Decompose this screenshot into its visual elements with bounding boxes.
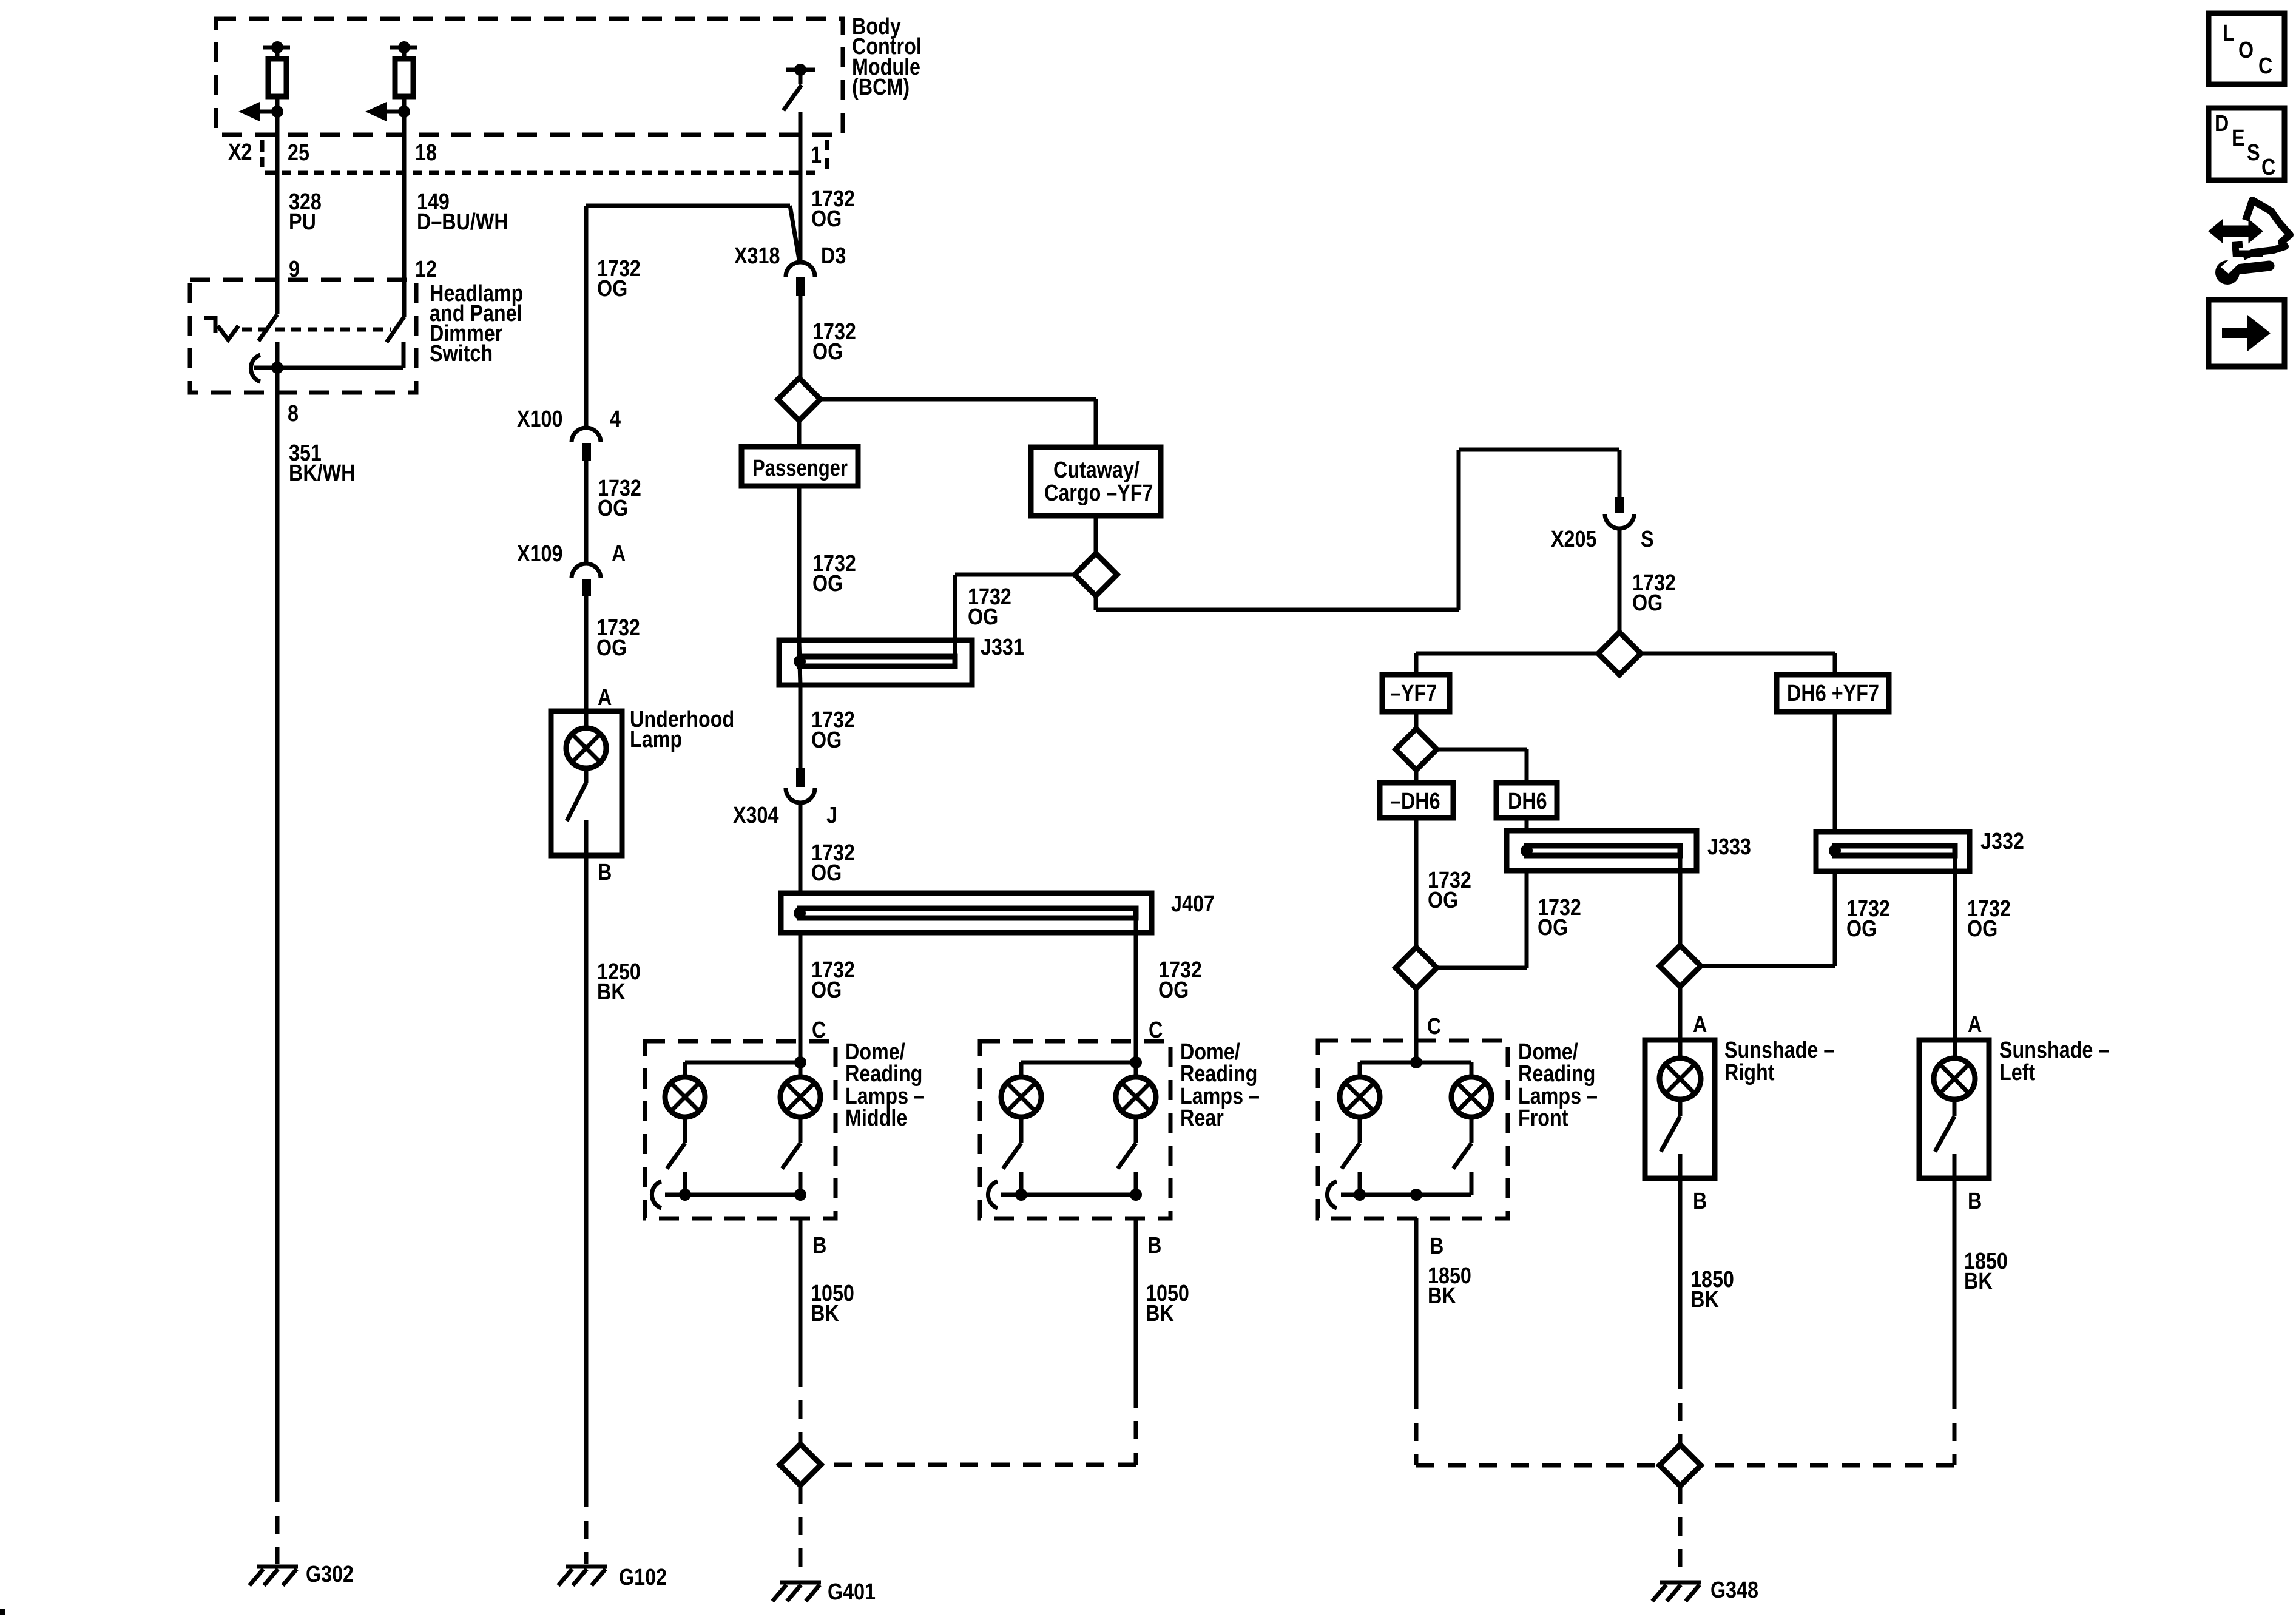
label 1732 OG (passenger-J331) <box>812 551 856 596</box>
label 1732 OG (dome rear feed) <box>1158 957 1202 1003</box>
svg-text:4: 4 <box>610 407 621 432</box>
dashed lead dome rear to diamond <box>821 1389 1136 1465</box>
svg-text:J331: J331 <box>981 635 1024 660</box>
label 351 BK/WH <box>289 441 356 486</box>
Sunshade Right box <box>1645 1040 1715 1178</box>
wire diamond to sunshade right pin A <box>1678 987 1683 1041</box>
wire J331 through main <box>799 642 800 685</box>
dome middle top bus <box>685 1056 806 1078</box>
BCM label <box>852 14 922 100</box>
svg-text:J: J <box>826 803 837 828</box>
label 1732 OG (X100 branch) <box>597 256 641 302</box>
dome rear case curl <box>988 1181 998 1208</box>
ground G302 <box>249 1567 298 1585</box>
dashed lead to G302 <box>275 1484 280 1564</box>
icon arrow box <box>2209 300 2284 366</box>
label 1850 BK (sunshade right) <box>1690 1267 1734 1312</box>
svg-text:BK/WH: BK/WH <box>289 461 356 486</box>
wire Cutaway box to splice diamond <box>1094 516 1098 554</box>
svg-text:G348: G348 <box>1710 1578 1758 1603</box>
svg-text:E: E <box>2232 126 2245 151</box>
svg-text:DH6 +YF7: DH6 +YF7 <box>1787 681 1879 706</box>
dome rear lamp 1 <box>1001 1077 1041 1117</box>
splice diamond (G348) <box>1660 1445 1701 1486</box>
svg-text:A: A <box>612 541 626 567</box>
icon DESC box <box>2209 108 2284 180</box>
svg-text:Rear: Rear <box>1180 1106 1224 1131</box>
svg-text:Sunshade –: Sunshade – <box>1999 1038 2109 1063</box>
wire diamond to DH6 +YF7 box <box>1641 653 1835 675</box>
dimmer common bus <box>254 342 403 374</box>
wire J333 main through to diamond row 1732 OG <box>1437 871 1527 968</box>
svg-text:Passenger: Passenger <box>752 456 848 481</box>
label 1732 OG (DH6 leg) <box>1538 895 1581 940</box>
scan artifact dot bottom-left <box>0 1609 5 1615</box>
svg-text:OG: OG <box>596 635 627 661</box>
label 1732 OG (X304-J407) <box>811 840 855 886</box>
wire diamond to DH6 box <box>1437 749 1527 783</box>
svg-text:BK: BK <box>1690 1287 1719 1312</box>
Dome front label <box>1518 1039 1598 1131</box>
svg-text:J332: J332 <box>1980 829 2024 854</box>
label 1732 OG (J332 tap) <box>1967 896 2011 942</box>
wire DH6+YF7 box to J332 <box>1833 712 1837 832</box>
splice pack J332 <box>1816 832 1970 871</box>
svg-text:B: B <box>598 860 612 885</box>
branch wire to X100 <box>586 206 799 428</box>
DH6 option box <box>1496 783 1557 818</box>
svg-text:B: B <box>1968 1189 1982 1214</box>
svg-text:OG: OG <box>968 604 998 630</box>
dimmer pivot symbol <box>204 318 238 340</box>
dashed lead sunshade left to diamond <box>1701 1391 1954 1465</box>
splice diamond (sunshade right feed) <box>1660 945 1701 987</box>
svg-text:Middle: Middle <box>845 1106 907 1131</box>
wire X100 to X109 1732 OG <box>584 461 589 564</box>
svg-text:L: L <box>2223 21 2235 46</box>
svg-text:Reading: Reading <box>1518 1061 1595 1087</box>
svg-text:X304: X304 <box>733 803 778 828</box>
svg-text:Sunshade –: Sunshade – <box>1724 1038 1834 1063</box>
-YF7 option box <box>1382 675 1450 712</box>
svg-text:–YF7: –YF7 <box>1390 681 1437 706</box>
Dome/Reading Lamps Rear dashed box <box>980 1041 1170 1218</box>
svg-text:8: 8 <box>288 401 299 427</box>
sunshade left lamp <box>1934 1041 1975 1099</box>
wire diamond to X205 run <box>1096 450 1619 610</box>
svg-text:A: A <box>1693 1012 1707 1038</box>
svg-text:OG: OG <box>1846 916 1877 942</box>
svg-text:BK: BK <box>1428 1283 1456 1309</box>
label 1732 OG (J331-X304) <box>811 707 855 753</box>
wire diamond to dome front pin C <box>1414 988 1419 1064</box>
wire X205 to diamond 1732 OG <box>1618 528 1622 633</box>
label 1732 OG (dome middle feed) <box>811 957 855 1003</box>
label 1050 BK (rear) <box>1146 1281 1189 1326</box>
Sunshade Right label <box>1724 1038 1834 1085</box>
svg-text:OG: OG <box>598 496 628 521</box>
connector X205 pin S <box>1605 497 1634 528</box>
resistor R2 (BCM pin 18 pull-up) <box>390 41 417 112</box>
label 1732 OG (X205) <box>1632 570 1676 616</box>
dome middle switch 1 <box>667 1117 685 1195</box>
Passenger option box <box>741 447 858 486</box>
svg-text:Right: Right <box>1724 1060 1775 1085</box>
node / arrow output pin 25 <box>238 102 283 121</box>
dome front lamp 2 <box>1451 1077 1491 1117</box>
dashed lead diamond to G401 <box>799 1485 803 1575</box>
svg-text:B: B <box>1430 1234 1443 1259</box>
dome rear lamp 2 <box>1116 1062 1156 1117</box>
svg-text:B: B <box>1693 1189 1707 1214</box>
svg-text:C: C <box>2261 155 2275 180</box>
svg-text:BK: BK <box>1964 1269 1993 1294</box>
splice pack J407 <box>781 893 1152 933</box>
label 1850 BK (front) <box>1428 1263 1471 1309</box>
connector X318 pin D3 <box>786 262 815 296</box>
wire X318 to splice diamond 1732 OG <box>799 296 803 379</box>
wire 1050 BK (dome rear) <box>1134 1218 1138 1389</box>
svg-text:OG: OG <box>1158 977 1189 1003</box>
svg-text:OG: OG <box>1632 590 1663 616</box>
label 1732 OG (X318-diamond) <box>812 319 856 365</box>
label 149 D-BU/WH <box>417 189 508 235</box>
wire BCM pin 1 output 1732 OG <box>799 112 803 261</box>
svg-text:X318: X318 <box>734 243 780 269</box>
wire -YF7 to splice diamond <box>1414 712 1419 729</box>
dashed lead dome middle to diamond <box>799 1369 803 1445</box>
dimmer switch blade left <box>258 314 277 341</box>
splice pack J331 <box>779 640 972 685</box>
svg-text:S: S <box>1641 527 1654 552</box>
svg-text:A: A <box>598 685 612 711</box>
label 1250 BK <box>597 959 641 1005</box>
label 1732 OG (X100-X109) <box>598 476 641 521</box>
wire 328 PU (pin 25 to dimmer pin 9) <box>275 112 280 314</box>
label 1732 OG (to underhood) <box>596 615 640 661</box>
splice pack J333 <box>1507 831 1697 871</box>
sunshade left switch <box>1935 1099 1954 1178</box>
dashed lead dome front to diamond <box>1416 1391 1660 1465</box>
dome front top bus <box>1360 1056 1471 1078</box>
svg-text:O: O <box>2238 38 2254 63</box>
wire 1850 BK (dome front) <box>1414 1218 1419 1391</box>
underhood lamp bulb <box>566 711 606 768</box>
wire 1250 BK (underhood to G102) <box>584 856 589 1489</box>
wire Passenger box to J331 1732 OG <box>797 486 802 642</box>
svg-text:OG: OG <box>812 571 843 596</box>
svg-text:X2: X2 <box>228 140 252 165</box>
svg-text:25: 25 <box>288 140 309 166</box>
label 1732 OG (pin1) <box>811 186 855 232</box>
dashed lead to G102 <box>584 1489 589 1564</box>
svg-text:(BCM): (BCM) <box>852 75 910 100</box>
Dimmer switch label <box>430 281 523 366</box>
label 1732 OG (-DH6) <box>1428 868 1471 913</box>
svg-text:OG: OG <box>1428 888 1458 913</box>
svg-text:OG: OG <box>811 977 842 1003</box>
dashed lead sunshade right to diamond <box>1678 1371 1683 1446</box>
resistor R1 (BCM pin 25 pull-up) <box>263 41 290 112</box>
dome front switch 2 <box>1453 1117 1471 1195</box>
Dome/Reading Lamps Front dashed box <box>1318 1041 1508 1218</box>
dome rear switch 1 <box>1003 1117 1021 1195</box>
node / arrow output pin 18 <box>365 102 410 121</box>
svg-text:Lamp: Lamp <box>630 727 682 752</box>
wire 351 BK/WH (dimmer pin 8 to G302) <box>275 368 280 1484</box>
svg-text:Switch: Switch <box>430 341 493 366</box>
icon hand with arrow and wrench <box>2210 200 2290 285</box>
wire J407 to dome middle pin C 1732 OG <box>799 933 803 1064</box>
svg-text:Cargo –YF7: Cargo –YF7 <box>1044 481 1153 506</box>
Sunshade Left label <box>1999 1038 2109 1085</box>
sunshade right switch <box>1661 1099 1680 1178</box>
svg-text:1: 1 <box>811 143 822 168</box>
Dome/Reading Lamps Middle dashed box <box>645 1041 836 1218</box>
wire diamond to -DH6 box <box>1414 770 1419 783</box>
svg-text:X109: X109 <box>517 541 562 567</box>
svg-text:J333: J333 <box>1707 834 1751 860</box>
Sunshade Left box <box>1919 1040 1989 1178</box>
dome rear bottom bus <box>1001 1189 1142 1201</box>
wire diamond to Cutaway branch <box>820 399 1096 447</box>
wire DH6 box to J333 <box>1525 818 1529 832</box>
DH6 +YF7 option box <box>1777 675 1889 712</box>
svg-text:OG: OG <box>811 860 842 886</box>
icon LOC box <box>2209 13 2284 84</box>
svg-text:G401: G401 <box>828 1579 876 1605</box>
dome front case curl <box>1327 1181 1337 1208</box>
dimmer mechanical linkage dashed <box>242 328 391 332</box>
dome middle bottom bus <box>665 1189 806 1201</box>
svg-text:12: 12 <box>415 257 437 282</box>
wire 1050 BK (dome middle) <box>799 1218 803 1369</box>
svg-text:D3: D3 <box>821 243 846 269</box>
svg-text:BK: BK <box>1146 1301 1174 1326</box>
svg-text:BK: BK <box>811 1301 839 1326</box>
svg-text:OG: OG <box>811 727 842 753</box>
svg-text:X205: X205 <box>1551 527 1596 552</box>
label 328 PU <box>289 189 322 235</box>
svg-text:D–BU/WH: D–BU/WH <box>417 209 508 235</box>
X2 connector row <box>262 140 827 173</box>
Cutaway/Cargo -YF7 option box <box>1031 447 1161 516</box>
splice diamond (dome front feed) <box>1396 947 1437 988</box>
Cutaway/Cargo label <box>1044 457 1153 506</box>
label 1050 BK (middle) <box>811 1281 854 1326</box>
dome front lamp 1 <box>1340 1077 1380 1117</box>
label 1850 BK (sunshade left) <box>1964 1249 2008 1294</box>
sunshade right lamp <box>1660 1041 1701 1099</box>
wire 1850 BK (sunshade right) <box>1678 1178 1683 1371</box>
wire 149 D-BU/WH (pin 18 to dimmer pin 12) <box>402 112 407 317</box>
svg-text:Front: Front <box>1518 1106 1568 1131</box>
connector X109 pin A <box>572 564 601 596</box>
svg-text:Reading: Reading <box>845 1061 922 1087</box>
ground G401 <box>772 1582 821 1601</box>
dimmer case curl <box>251 355 260 382</box>
Body Control Module (BCM) dashed box <box>216 19 843 135</box>
svg-text:–DH6: –DH6 <box>1390 789 1440 814</box>
label 1732 OG (J332 main leg) <box>1846 896 1890 942</box>
dome middle case curl <box>652 1181 661 1208</box>
BCM internal switch (pin 1 driver) <box>783 64 815 110</box>
splice diamond (-DH6/DH6 split) <box>1396 729 1437 770</box>
svg-text:Cutaway/: Cutaway/ <box>1053 457 1140 483</box>
dome middle lamp 1 <box>665 1077 705 1117</box>
wire diamond left to J331 tap <box>955 575 1075 661</box>
dashed lead diamond to G348 <box>1678 1486 1683 1575</box>
svg-text:A: A <box>1968 1012 1982 1038</box>
svg-text:18: 18 <box>415 140 437 166</box>
wire X109 to underhood lamp 1732 OG <box>584 596 589 711</box>
svg-text:G102: G102 <box>619 1565 667 1590</box>
svg-text:OG: OG <box>811 206 842 232</box>
svg-text:C: C <box>2258 53 2272 79</box>
wire X304 to J407 1732 OG <box>799 803 803 893</box>
splice diamond (YF7/DH6 split) <box>1598 632 1641 675</box>
svg-text:J407: J407 <box>1171 891 1215 917</box>
svg-text:OG: OG <box>812 339 843 365</box>
splice diamond (Passenger/Cutaway split) <box>778 378 820 420</box>
svg-text:G302: G302 <box>306 1562 354 1587</box>
svg-text:C: C <box>1427 1014 1441 1039</box>
svg-text:Reading: Reading <box>1180 1061 1257 1087</box>
dome middle switch 2 <box>782 1117 800 1195</box>
Dome middle label <box>845 1039 925 1131</box>
label 1732 OG (J331 tap) <box>968 584 1011 630</box>
svg-text:X100: X100 <box>517 407 562 432</box>
dome rear switch 2 <box>1118 1117 1136 1195</box>
wire diamond to Passenger box <box>797 420 802 447</box>
dome middle lamp 2 <box>780 1062 820 1117</box>
svg-text:B: B <box>812 1233 826 1258</box>
svg-text:D: D <box>2215 111 2229 137</box>
svg-text:BK: BK <box>597 979 626 1005</box>
dome front bottom bus <box>1341 1189 1471 1201</box>
wire J332 tap to sunshade left pin A 1732 OG <box>1953 856 1957 1041</box>
-DH6 option box <box>1380 783 1453 818</box>
svg-text:B: B <box>1147 1233 1161 1258</box>
dome rear top bus <box>1021 1056 1142 1078</box>
svg-text:OG: OG <box>1967 916 1997 942</box>
wire J332 main leg to sunshade diamond 1732 OG <box>1701 871 1835 966</box>
svg-text:Left: Left <box>1999 1060 2035 1085</box>
ground G348 <box>1652 1582 1701 1601</box>
Underhood Lamp box <box>551 711 622 856</box>
underhood lamp switch <box>567 768 586 856</box>
connector X304 pin J <box>786 768 815 803</box>
Dome rear label <box>1180 1039 1260 1131</box>
wire -DH6 to diamond 1732 OG <box>1414 818 1419 947</box>
connector X100 pin 4 <box>572 428 601 461</box>
Headlamp and Panel Dimmer Switch dashed box <box>190 280 416 393</box>
splice diamond (G401) <box>780 1444 821 1485</box>
dimmer switch blade right <box>387 317 404 342</box>
wire J331 to X304 1732 OG <box>799 685 803 768</box>
splice diamond (Cutaway output) <box>1075 553 1117 596</box>
ground G102 <box>558 1567 607 1585</box>
svg-text:S: S <box>2247 140 2260 166</box>
svg-text:OG: OG <box>1538 915 1568 940</box>
wire diamond to -YF7 box <box>1416 653 1598 675</box>
dome front switch 1 <box>1342 1117 1360 1195</box>
svg-text:OG: OG <box>597 276 627 302</box>
Underhood Lamp label <box>630 707 734 752</box>
wire J407 tap to dome rear pin C 1732 OG <box>1134 918 1138 1064</box>
wire 1850 BK (sunshade left) <box>1953 1178 1957 1391</box>
wire J333 tap to sunshade diamond <box>1678 856 1683 946</box>
svg-text:PU: PU <box>289 209 316 235</box>
svg-text:DH6: DH6 <box>1508 789 1547 814</box>
